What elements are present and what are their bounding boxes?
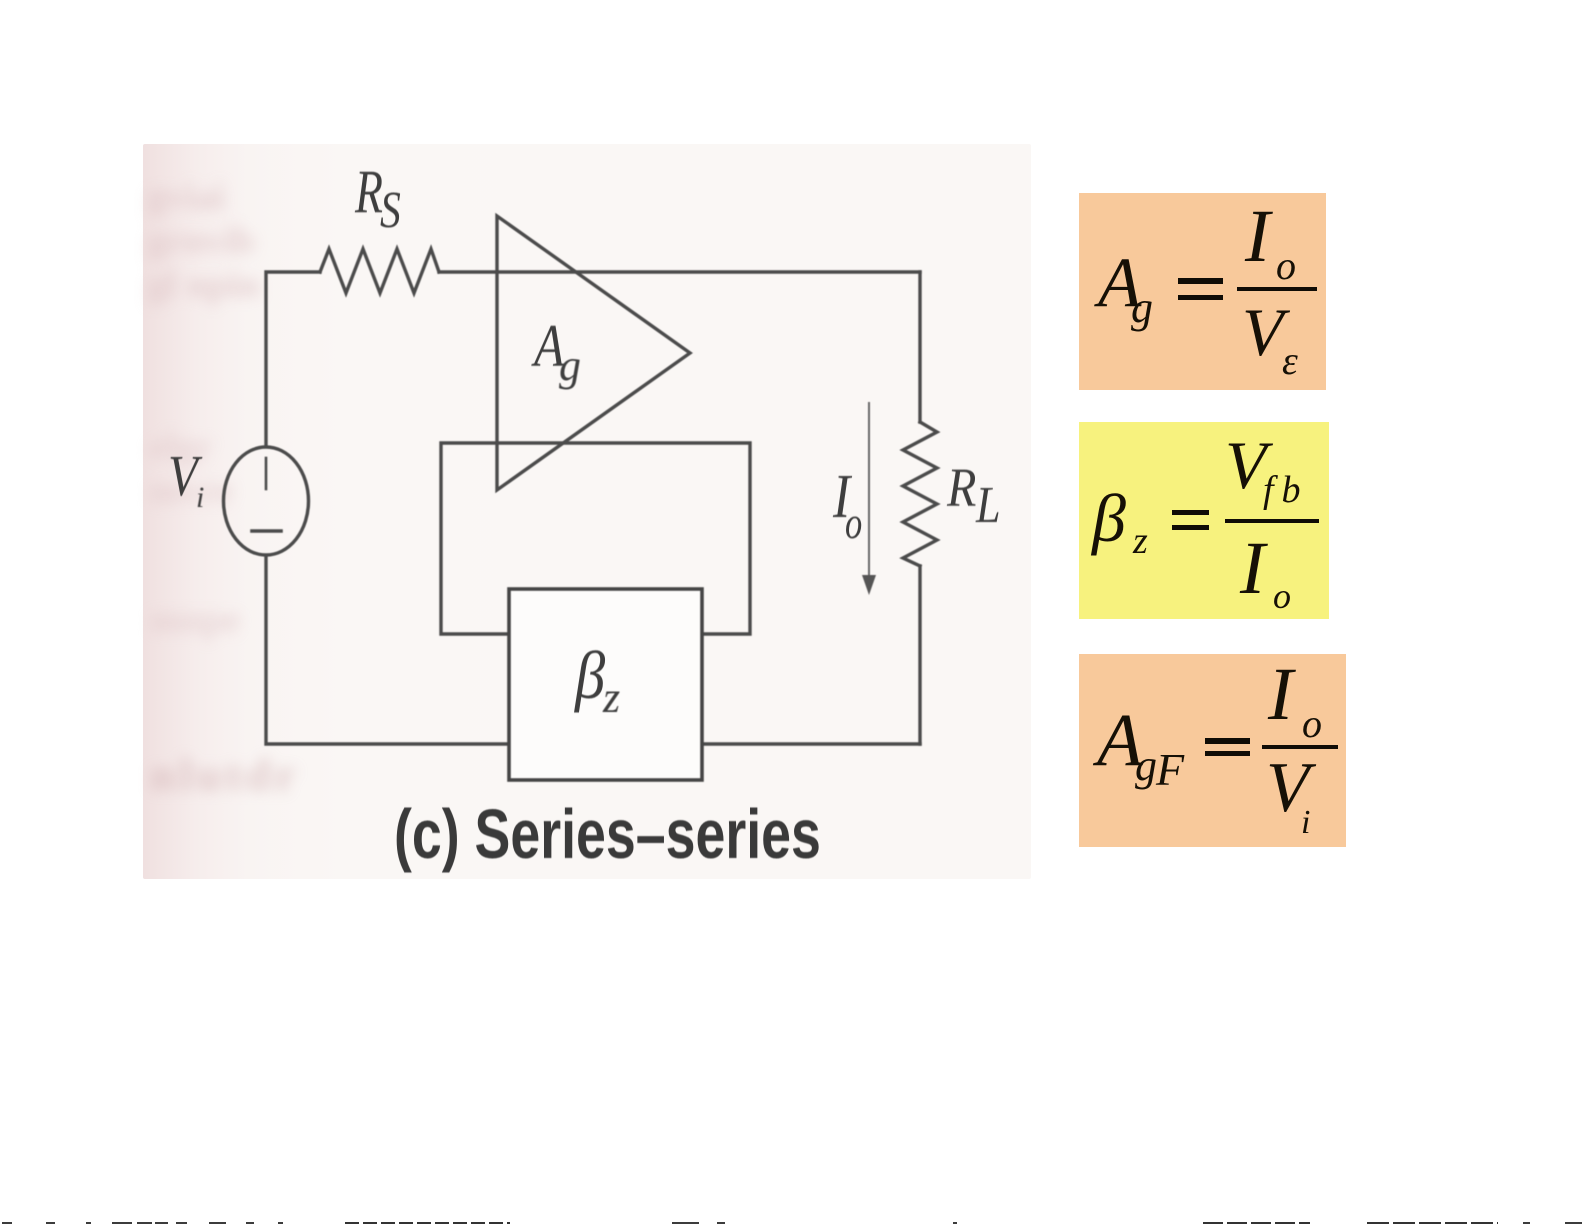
fb subscript	[1263, 471, 1309, 509]
equals bars	[1172, 510, 1209, 515]
wire left vertical Vi-to-top corner	[266, 272, 320, 445]
label Vi: V	[168, 447, 198, 505]
V denominator	[1266, 753, 1309, 824]
formula box 2: Bz = Vfb/Io (yellow)	[1079, 422, 1329, 619]
current Io arrow shaft	[868, 402, 870, 580]
formula box 1: Ag = Io/Veps (orange)	[1079, 193, 1326, 390]
A	[1098, 248, 1141, 319]
label beta-z: beta	[575, 641, 605, 709]
fraction bar	[1262, 745, 1338, 749]
wire RS to top-right corner	[439, 270, 920, 273]
label RS: R	[355, 162, 383, 223]
I denominator	[1240, 531, 1265, 606]
z subscript	[1133, 522, 1148, 560]
resistor RL	[903, 422, 937, 566]
source Vi circle	[224, 447, 309, 555]
V denominator	[1242, 298, 1284, 366]
A	[1097, 703, 1143, 778]
wire right vertical down to RL	[918, 272, 921, 422]
source Vi plus tick	[265, 458, 268, 489]
o subscript	[1302, 704, 1322, 744]
fraction bar	[1225, 519, 1319, 523]
i subscript	[1301, 806, 1310, 840]
formula box 3: AgF = Io/Vi (orange)	[1079, 654, 1346, 847]
label Io: o	[845, 500, 862, 546]
outer feedback loop box	[441, 443, 750, 634]
epsilon subscript	[1282, 341, 1298, 381]
label Ag: A	[534, 316, 564, 376]
label Ag: g	[559, 344, 581, 388]
feedback block beta-z box	[509, 589, 702, 780]
wire bottom return to Vi	[266, 557, 920, 744]
label RS: S	[380, 185, 401, 237]
label RL: R	[947, 460, 976, 515]
caption (c) Series-series	[394, 799, 821, 869]
source Vi minus tick	[252, 529, 281, 533]
fraction bar	[1237, 287, 1317, 291]
op-amp triangle Ag	[497, 216, 690, 490]
equals bars	[1205, 738, 1250, 744]
current Io arrowhead	[862, 575, 876, 595]
equals bars	[1178, 278, 1223, 284]
label RL: L	[976, 480, 1001, 532]
o subscript	[1276, 246, 1296, 286]
o subscript	[1273, 578, 1291, 614]
ghost bleed-through text left margin	[147, 175, 262, 307]
bottom edge cropped text marks	[2, 1222, 12, 1224]
g subscript	[1131, 286, 1153, 330]
beta	[1092, 484, 1126, 552]
wire RL bottom to bottom-right corner	[918, 566, 921, 744]
V numerator	[1225, 431, 1267, 499]
F subscript	[1156, 747, 1184, 793]
label Vi: i	[196, 483, 204, 513]
g subscript	[1135, 744, 1157, 788]
label Io: I	[833, 466, 850, 528]
resistor RS	[320, 249, 439, 293]
I numerator	[1245, 199, 1270, 274]
label beta-z: z	[603, 676, 620, 720]
scanned figure background	[143, 144, 1031, 879]
I numerator	[1268, 657, 1293, 732]
